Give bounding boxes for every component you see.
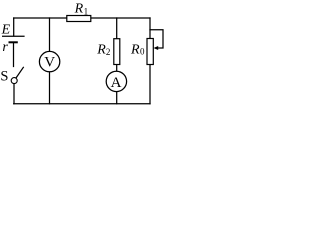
wire left lower (switch to bottom) [13,83,15,103]
svg-text:1: 1 [84,7,89,17]
battery E (long plate) [2,35,25,37]
wire left upper [13,18,15,36]
wire bottom [14,103,150,105]
wire R2 to ammeter [116,65,118,72]
svg-text:V: V [44,55,55,71]
svg-text:2: 2 [106,47,111,57]
wire R2 branch upper [116,18,118,39]
svg-text:E: E [1,23,11,38]
svg-text:S: S [0,68,8,84]
ammeter A circle [106,71,126,91]
battery negative plate (short thick) [9,41,18,43]
svg-text:r: r [2,40,8,55]
svg-text:R: R [74,2,84,17]
voltmeter V circle [39,51,59,71]
wire right upper [149,18,151,39]
resistor R2 box [114,39,120,65]
resistor R1 box [67,16,91,22]
svg-text:0: 0 [140,47,145,57]
rheostat R0 box [147,39,153,65]
rheostat wiper arrowhead [154,46,159,50]
wire ammeter to bottom [116,92,118,104]
wire top [14,17,150,19]
wire rheostat wiper hook [150,30,163,48]
svg-text:A: A [111,75,122,91]
wire left mid (battery to switch) [13,43,15,67]
wire voltmeter branch upper [49,18,51,51]
switch S blade [16,67,24,78]
wire voltmeter branch lower [49,72,51,104]
svg-text:R: R [96,42,106,57]
svg-text:R: R [130,43,140,58]
wire right lower [149,65,151,104]
switch S pivot circle [11,78,17,84]
